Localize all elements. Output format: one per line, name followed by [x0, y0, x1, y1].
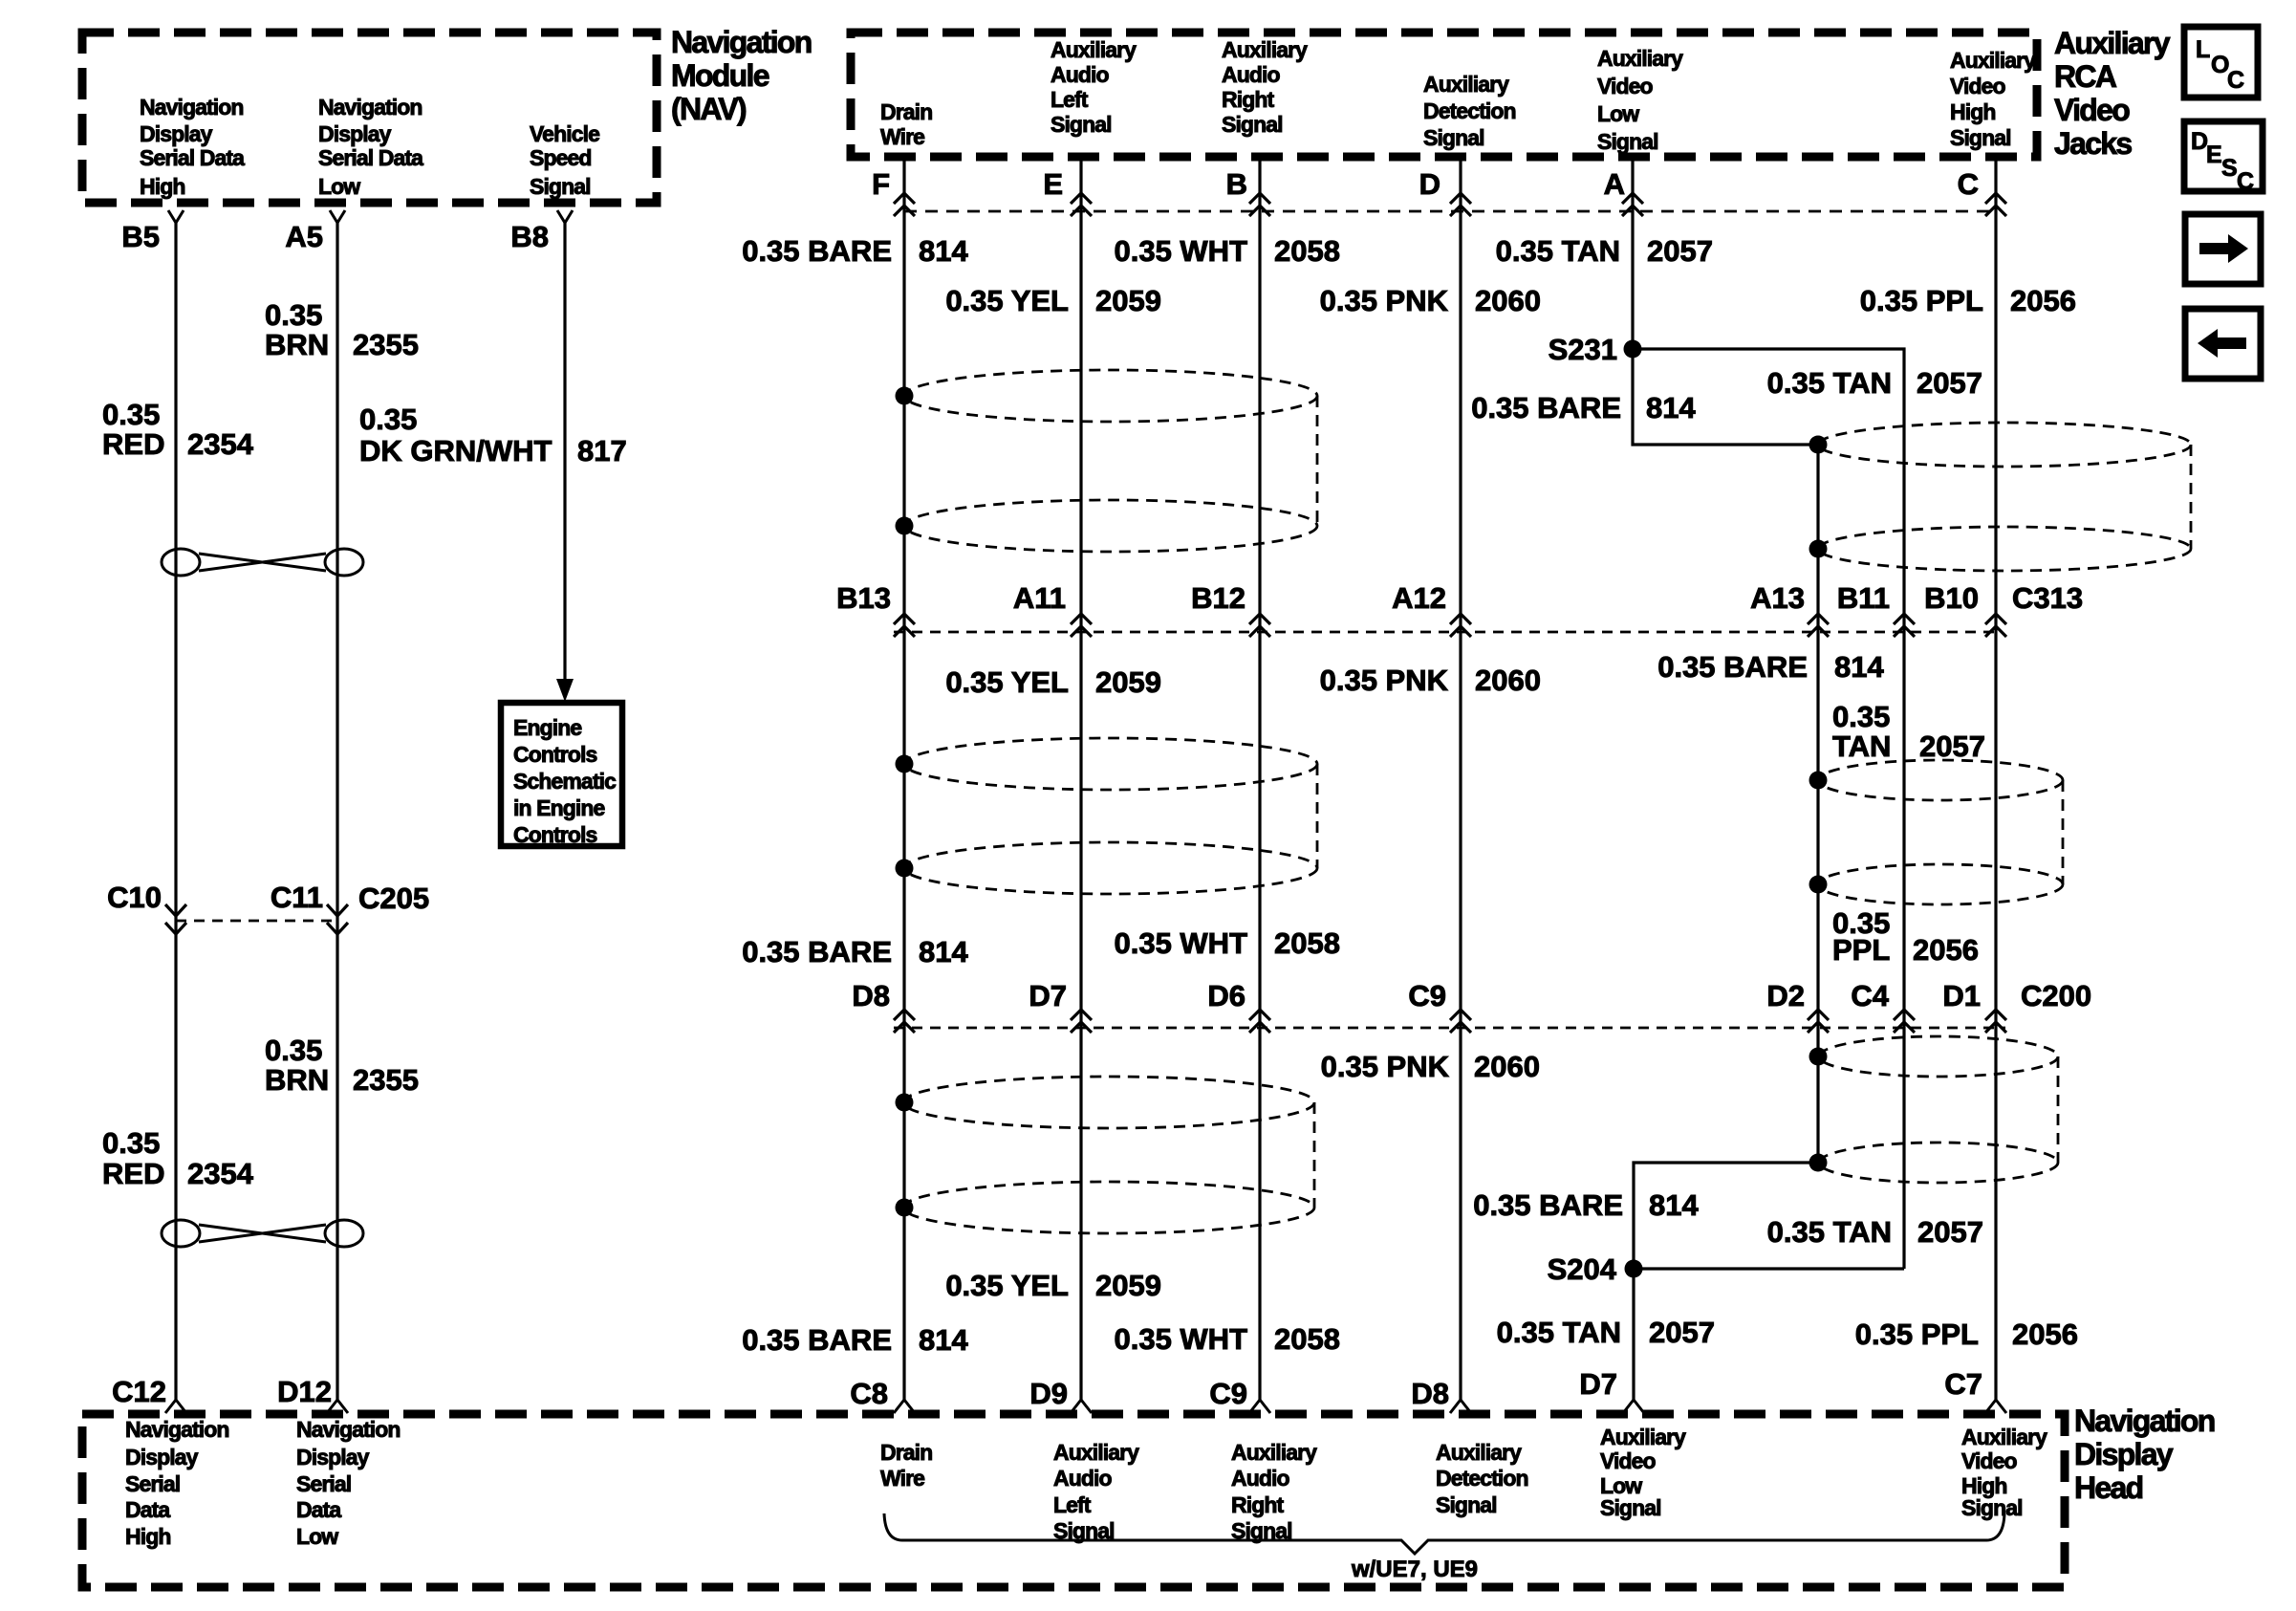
arrowhead to Engine Controls Schematic	[556, 679, 574, 702]
svg-text:High: High	[140, 174, 185, 199]
svg-text:Display: Display	[140, 121, 213, 146]
junction S204	[1625, 1260, 1643, 1278]
svg-text:2354: 2354	[187, 1157, 254, 1190]
svg-text:Controls: Controls	[513, 822, 596, 847]
svg-text:E: E	[2206, 142, 2222, 168]
wire B5: navigation display serial data high (0.35 RED 2354)	[168, 210, 184, 223]
connector C313 line	[894, 631, 1996, 634]
junction drain-shield middle band lower	[896, 860, 914, 878]
svg-text:High: High	[125, 1524, 171, 1549]
svg-text:Speed: Speed	[530, 145, 592, 170]
svg-text:C: C	[2237, 168, 2254, 195]
wire D: auxiliary detection signal (0.35 PNK 2060)	[1459, 159, 1462, 1400]
svg-text:Signal: Signal	[1423, 125, 1484, 150]
svg-text:Display: Display	[2074, 1437, 2174, 1471]
junction video-shield top band lower	[1809, 540, 1828, 558]
svg-text:0.35 TAN: 0.35 TAN	[1497, 1316, 1621, 1349]
svg-text:2058: 2058	[1274, 1322, 1340, 1356]
svg-text:A12: A12	[1392, 581, 1446, 615]
brace w/UE7, UE9	[884, 1513, 2004, 1554]
svg-text:Signal: Signal	[1961, 1495, 2023, 1520]
svg-text:0.35 BARE: 0.35 BARE	[742, 935, 892, 969]
svg-text:2057: 2057	[1917, 1215, 1983, 1249]
svg-text:Audio: Audio	[1231, 1466, 1289, 1491]
wire A13/D2 shield drain (0.35 BARE 814)	[1634, 445, 1818, 1400]
connector line at Auxiliary RCA Video Jacks	[904, 210, 1996, 213]
svg-text:0.35: 0.35	[359, 403, 417, 436]
svg-text:Signal: Signal	[1597, 129, 1658, 154]
svg-text:814: 814	[1649, 1188, 1699, 1222]
svg-text:BRN: BRN	[265, 1063, 329, 1097]
svg-text:Drain: Drain	[880, 99, 932, 124]
svg-text:B10: B10	[1924, 581, 1979, 615]
junction drain-shield bottom band upper	[896, 1094, 914, 1112]
svg-text:C200: C200	[2021, 979, 2091, 1012]
connector C200 line	[894, 1027, 2005, 1030]
svg-text:Vehicle: Vehicle	[530, 121, 599, 146]
junction drain-shield top band lower	[896, 517, 914, 535]
svg-text:Low: Low	[296, 1524, 338, 1549]
svg-text:Left: Left	[1051, 87, 1089, 112]
junction video-shield middle band lower	[1809, 876, 1828, 894]
shield cylinder audio top band	[904, 370, 1317, 422]
svg-text:Signal: Signal	[1950, 125, 2011, 150]
svg-text:Auxiliary: Auxiliary	[1053, 1440, 1139, 1465]
junction video-shield bottom band lower	[1809, 1154, 1828, 1172]
svg-text:Schematic: Schematic	[513, 769, 617, 794]
svg-text:A5: A5	[285, 220, 323, 253]
wire B8: vehicle speed signal (0.35 DK GRN/WHT 817)	[557, 210, 573, 223]
svg-text:0.35: 0.35	[102, 1126, 160, 1160]
Navigation Module (NAV) box	[82, 33, 657, 203]
svg-text:C9: C9	[1209, 1377, 1247, 1410]
wire E: auxiliary audio left signal (0.35 YEL 2059)	[1079, 159, 1082, 1400]
svg-text:Jacks: Jacks	[2054, 126, 2132, 161]
svg-text:Auxiliary: Auxiliary	[1950, 48, 2036, 73]
svg-text:A13: A13	[1750, 581, 1805, 615]
svg-text:D7: D7	[1579, 1367, 1617, 1401]
svg-text:0.35 WHT: 0.35 WHT	[1114, 234, 1247, 268]
svg-text:Data: Data	[125, 1497, 170, 1522]
wire F: drain wire (0.35 BARE 814)	[902, 159, 905, 1400]
svg-text:S231: S231	[1549, 333, 1617, 366]
svg-text:Navigation: Navigation	[296, 1417, 401, 1442]
junction video-shield bottom band upper	[1809, 1048, 1828, 1066]
svg-text:Signal: Signal	[1436, 1492, 1497, 1517]
svg-text:0.35 PPL: 0.35 PPL	[1860, 284, 1983, 317]
svg-text:Display: Display	[296, 1445, 370, 1469]
svg-text:2059: 2059	[1095, 284, 1161, 317]
svg-text:Module: Module	[671, 58, 769, 93]
svg-text:RED: RED	[102, 1157, 164, 1190]
svg-text:Serial: Serial	[125, 1471, 180, 1496]
junction drain-shield bottom band lower	[896, 1199, 914, 1217]
svg-text:2056: 2056	[1913, 933, 1979, 967]
svg-text:E: E	[1043, 167, 1063, 201]
svg-text:2354: 2354	[187, 427, 254, 461]
svg-text:D9: D9	[1029, 1377, 1068, 1410]
svg-text:S204: S204	[1548, 1252, 1617, 1286]
svg-text:2057: 2057	[1647, 234, 1713, 268]
svg-text:Auxiliary: Auxiliary	[1597, 46, 1683, 71]
svg-text:D7: D7	[1029, 979, 1067, 1012]
svg-text:Signal: Signal	[1051, 112, 1112, 137]
svg-text:TAN: TAN	[1832, 729, 1891, 763]
svg-text:C11: C11	[271, 881, 323, 914]
svg-text:2060: 2060	[1475, 284, 1541, 317]
svg-text:DK GRN/WHT: DK GRN/WHT	[359, 434, 552, 468]
svg-text:0.35 WHT: 0.35 WHT	[1114, 1322, 1247, 1356]
svg-text:2355: 2355	[353, 1063, 419, 1097]
svg-text:Display: Display	[125, 1445, 199, 1469]
junction drain-shield middle band upper	[896, 755, 914, 773]
svg-text:Engine: Engine	[513, 715, 581, 740]
svg-text:D2: D2	[1766, 979, 1805, 1012]
svg-text:Auxiliary: Auxiliary	[1051, 37, 1137, 62]
svg-text:2059: 2059	[1095, 665, 1161, 699]
svg-text:Wire: Wire	[880, 124, 924, 149]
svg-text:RED: RED	[102, 427, 164, 461]
svg-text:Navigation: Navigation	[140, 95, 244, 120]
svg-text:2058: 2058	[1274, 234, 1340, 268]
svg-text:Right: Right	[1231, 1492, 1284, 1517]
svg-text:Navigation: Navigation	[671, 25, 812, 59]
junction video-shield top band upper	[1809, 436, 1828, 454]
svg-text:0.35 WHT: 0.35 WHT	[1114, 926, 1247, 960]
svg-text:817: 817	[577, 434, 627, 468]
svg-text:Navigation: Navigation	[125, 1417, 229, 1442]
svg-text:Display: Display	[318, 121, 392, 146]
svg-text:0.35 PNK: 0.35 PNK	[1320, 664, 1449, 697]
svg-text:Detection: Detection	[1423, 98, 1516, 123]
shield cylinder audio bottom band	[903, 1077, 1314, 1128]
svg-text:0.35 PNK: 0.35 PNK	[1321, 1050, 1450, 1083]
shield cylinder audio middle band	[904, 738, 1317, 790]
svg-text:Auxiliary: Auxiliary	[1231, 1440, 1317, 1465]
svg-text:D12: D12	[277, 1375, 332, 1408]
svg-text:Auxiliary: Auxiliary	[1222, 37, 1308, 62]
svg-text:C: C	[2227, 67, 2244, 94]
svg-text:Serial Data: Serial Data	[318, 145, 423, 170]
svg-text:0.35 YEL: 0.35 YEL	[945, 1269, 1069, 1302]
svg-text:B: B	[1226, 167, 1247, 201]
svg-text:D: D	[1419, 167, 1440, 201]
svg-text:2355: 2355	[353, 328, 419, 361]
svg-text:0.35 BARE: 0.35 BARE	[1657, 650, 1808, 684]
svg-text:D8: D8	[1411, 1377, 1449, 1410]
svg-text:C313: C313	[2012, 581, 2083, 615]
wire A5: navigation display serial data low (0.35 BRN 2355)	[330, 210, 345, 223]
svg-text:Video: Video	[1961, 1448, 2018, 1473]
svg-text:C9: C9	[1408, 979, 1446, 1012]
wire A: auxiliary video low signal (0.35 TAN 2057)	[1633, 159, 1818, 445]
Auxiliary RCA Video Jacks box	[851, 33, 2037, 157]
svg-text:814: 814	[919, 1323, 968, 1357]
svg-text:0.35 PNK: 0.35 PNK	[1320, 284, 1449, 317]
svg-text:Navigation: Navigation	[318, 95, 422, 120]
svg-text:C8: C8	[850, 1377, 888, 1410]
svg-text:0.35: 0.35	[265, 1034, 322, 1067]
Engine Controls Schematic box	[501, 703, 622, 846]
button forward arrow	[2185, 214, 2261, 284]
svg-text:Serial Data: Serial Data	[140, 145, 245, 170]
svg-text:D6: D6	[1207, 979, 1245, 1012]
wire S204 branch to C4 (0.35 TAN 2057)	[1634, 1267, 1904, 1270]
svg-text:814: 814	[919, 935, 968, 969]
svg-text:Auxiliary: Auxiliary	[1600, 1425, 1686, 1449]
svg-text:Navigation: Navigation	[2074, 1404, 2215, 1438]
svg-text:Audio: Audio	[1051, 62, 1109, 87]
svg-text:C12: C12	[112, 1375, 166, 1408]
svg-text:B12: B12	[1191, 581, 1245, 615]
shield cylinder video top band	[1818, 423, 2191, 467]
svg-text:A11: A11	[1013, 581, 1066, 615]
svg-text:0.35 TAN: 0.35 TAN	[1767, 1215, 1892, 1249]
svg-text:Controls: Controls	[513, 742, 596, 767]
connector C205 line	[176, 920, 337, 923]
svg-text:S: S	[2221, 155, 2238, 182]
svg-text:Data: Data	[296, 1497, 341, 1522]
svg-text:C205: C205	[358, 882, 429, 915]
svg-text:RCA: RCA	[2054, 59, 2117, 94]
button back arrow	[2185, 309, 2261, 379]
svg-text:High: High	[1950, 99, 1996, 124]
twisted pair lower (serial data)	[162, 1220, 200, 1247]
svg-text:Signal: Signal	[1222, 112, 1283, 137]
svg-text:2056: 2056	[2012, 1317, 2078, 1351]
svg-text:in Engine: in Engine	[513, 795, 605, 820]
svg-text:D1: D1	[1942, 979, 1981, 1012]
twisted pair upper (serial data)	[162, 549, 200, 576]
svg-text:C10: C10	[107, 881, 162, 914]
svg-text:0.35: 0.35	[1832, 700, 1890, 733]
svg-text:Signal: Signal	[1600, 1495, 1661, 1520]
svg-text:L: L	[2196, 36, 2210, 63]
svg-text:Low: Low	[1597, 101, 1639, 126]
svg-text:Low: Low	[318, 174, 360, 199]
svg-text:2057: 2057	[1649, 1316, 1715, 1349]
svg-text:814: 814	[1834, 650, 1884, 684]
svg-text:814: 814	[1646, 391, 1696, 425]
svg-text:0.35 TAN: 0.35 TAN	[1496, 234, 1620, 268]
svg-text:814: 814	[919, 234, 968, 268]
svg-text:Auxiliary: Auxiliary	[1961, 1425, 2047, 1449]
svg-text:PPL: PPL	[1832, 933, 1890, 967]
svg-text:2060: 2060	[1475, 664, 1541, 697]
shield cylinder video middle band	[1818, 760, 2063, 800]
svg-text:B11: B11	[1837, 581, 1890, 615]
svg-text:Auxiliary: Auxiliary	[1423, 72, 1509, 97]
svg-text:Serial: Serial	[296, 1471, 351, 1496]
svg-text:B8: B8	[510, 220, 549, 253]
svg-text:F: F	[872, 167, 890, 201]
svg-text:0.35 BARE: 0.35 BARE	[742, 1323, 892, 1357]
svg-text:Signal: Signal	[530, 174, 591, 199]
wire S231 branch to B11 (0.35 TAN 2057)	[1633, 349, 1904, 1269]
svg-text:0.35 BARE: 0.35 BARE	[742, 234, 892, 268]
svg-text:2058: 2058	[1274, 926, 1340, 960]
svg-text:2060: 2060	[1474, 1050, 1540, 1083]
svg-text:Left: Left	[1053, 1492, 1092, 1517]
button DESC	[2184, 121, 2263, 191]
svg-text:C: C	[1958, 167, 1979, 201]
svg-text:0.35 TAN: 0.35 TAN	[1767, 366, 1892, 400]
svg-text:0.35 BARE: 0.35 BARE	[1471, 391, 1621, 425]
svg-text:C4: C4	[1851, 979, 1889, 1012]
wire B: auxiliary audio right signal (0.35 WHT 2058)	[1258, 159, 1261, 1400]
svg-text:Video: Video	[1600, 1448, 1657, 1473]
svg-text:D8: D8	[852, 979, 890, 1012]
svg-text:2059: 2059	[1095, 1269, 1161, 1302]
svg-text:(NAV): (NAV)	[671, 92, 747, 126]
svg-text:2057: 2057	[1917, 366, 1982, 400]
svg-text:Video: Video	[1950, 74, 2006, 98]
Navigation Display Head box	[82, 1414, 2065, 1587]
svg-text:Wire: Wire	[880, 1466, 924, 1491]
svg-text:Auxiliary: Auxiliary	[2054, 26, 2171, 60]
svg-text:Right: Right	[1222, 87, 1274, 112]
svg-text:w/UE7, UE9: w/UE7, UE9	[1351, 1557, 1478, 1582]
svg-text:BRN: BRN	[265, 328, 329, 361]
svg-text:Audio: Audio	[1222, 62, 1280, 87]
junction video-shield middle band upper	[1809, 772, 1828, 790]
shield cylinder video bottom band	[1819, 1036, 2058, 1077]
svg-text:Video: Video	[1597, 74, 1654, 98]
svg-text:Detection: Detection	[1436, 1466, 1528, 1491]
svg-text:C7: C7	[1944, 1367, 1982, 1401]
wire C: auxiliary video high signal (0.35 PPL 2056)	[1994, 159, 1997, 1400]
svg-text:Head: Head	[2074, 1470, 2143, 1505]
svg-text:A: A	[1604, 167, 1625, 201]
svg-text:0.35 BARE: 0.35 BARE	[1473, 1188, 1623, 1222]
svg-text:0.35: 0.35	[102, 398, 160, 431]
svg-text:B5: B5	[121, 220, 160, 253]
svg-text:2057: 2057	[1919, 729, 1985, 763]
svg-text:0.35 YEL: 0.35 YEL	[945, 284, 1069, 317]
svg-text:Video: Video	[2054, 93, 2130, 127]
svg-text:2056: 2056	[2010, 284, 2076, 317]
svg-text:0.35 YEL: 0.35 YEL	[945, 665, 1069, 699]
svg-text:0.35 PPL: 0.35 PPL	[1855, 1317, 1979, 1351]
svg-text:Drain: Drain	[880, 1440, 932, 1465]
junction S231	[1624, 340, 1642, 359]
junction drain-shield top band upper	[896, 387, 914, 405]
svg-text:Audio: Audio	[1053, 1466, 1112, 1491]
svg-text:Auxiliary: Auxiliary	[1436, 1440, 1522, 1465]
svg-text:B13: B13	[836, 581, 891, 615]
svg-text:0.35: 0.35	[265, 298, 322, 332]
button LOC	[2184, 27, 2258, 98]
